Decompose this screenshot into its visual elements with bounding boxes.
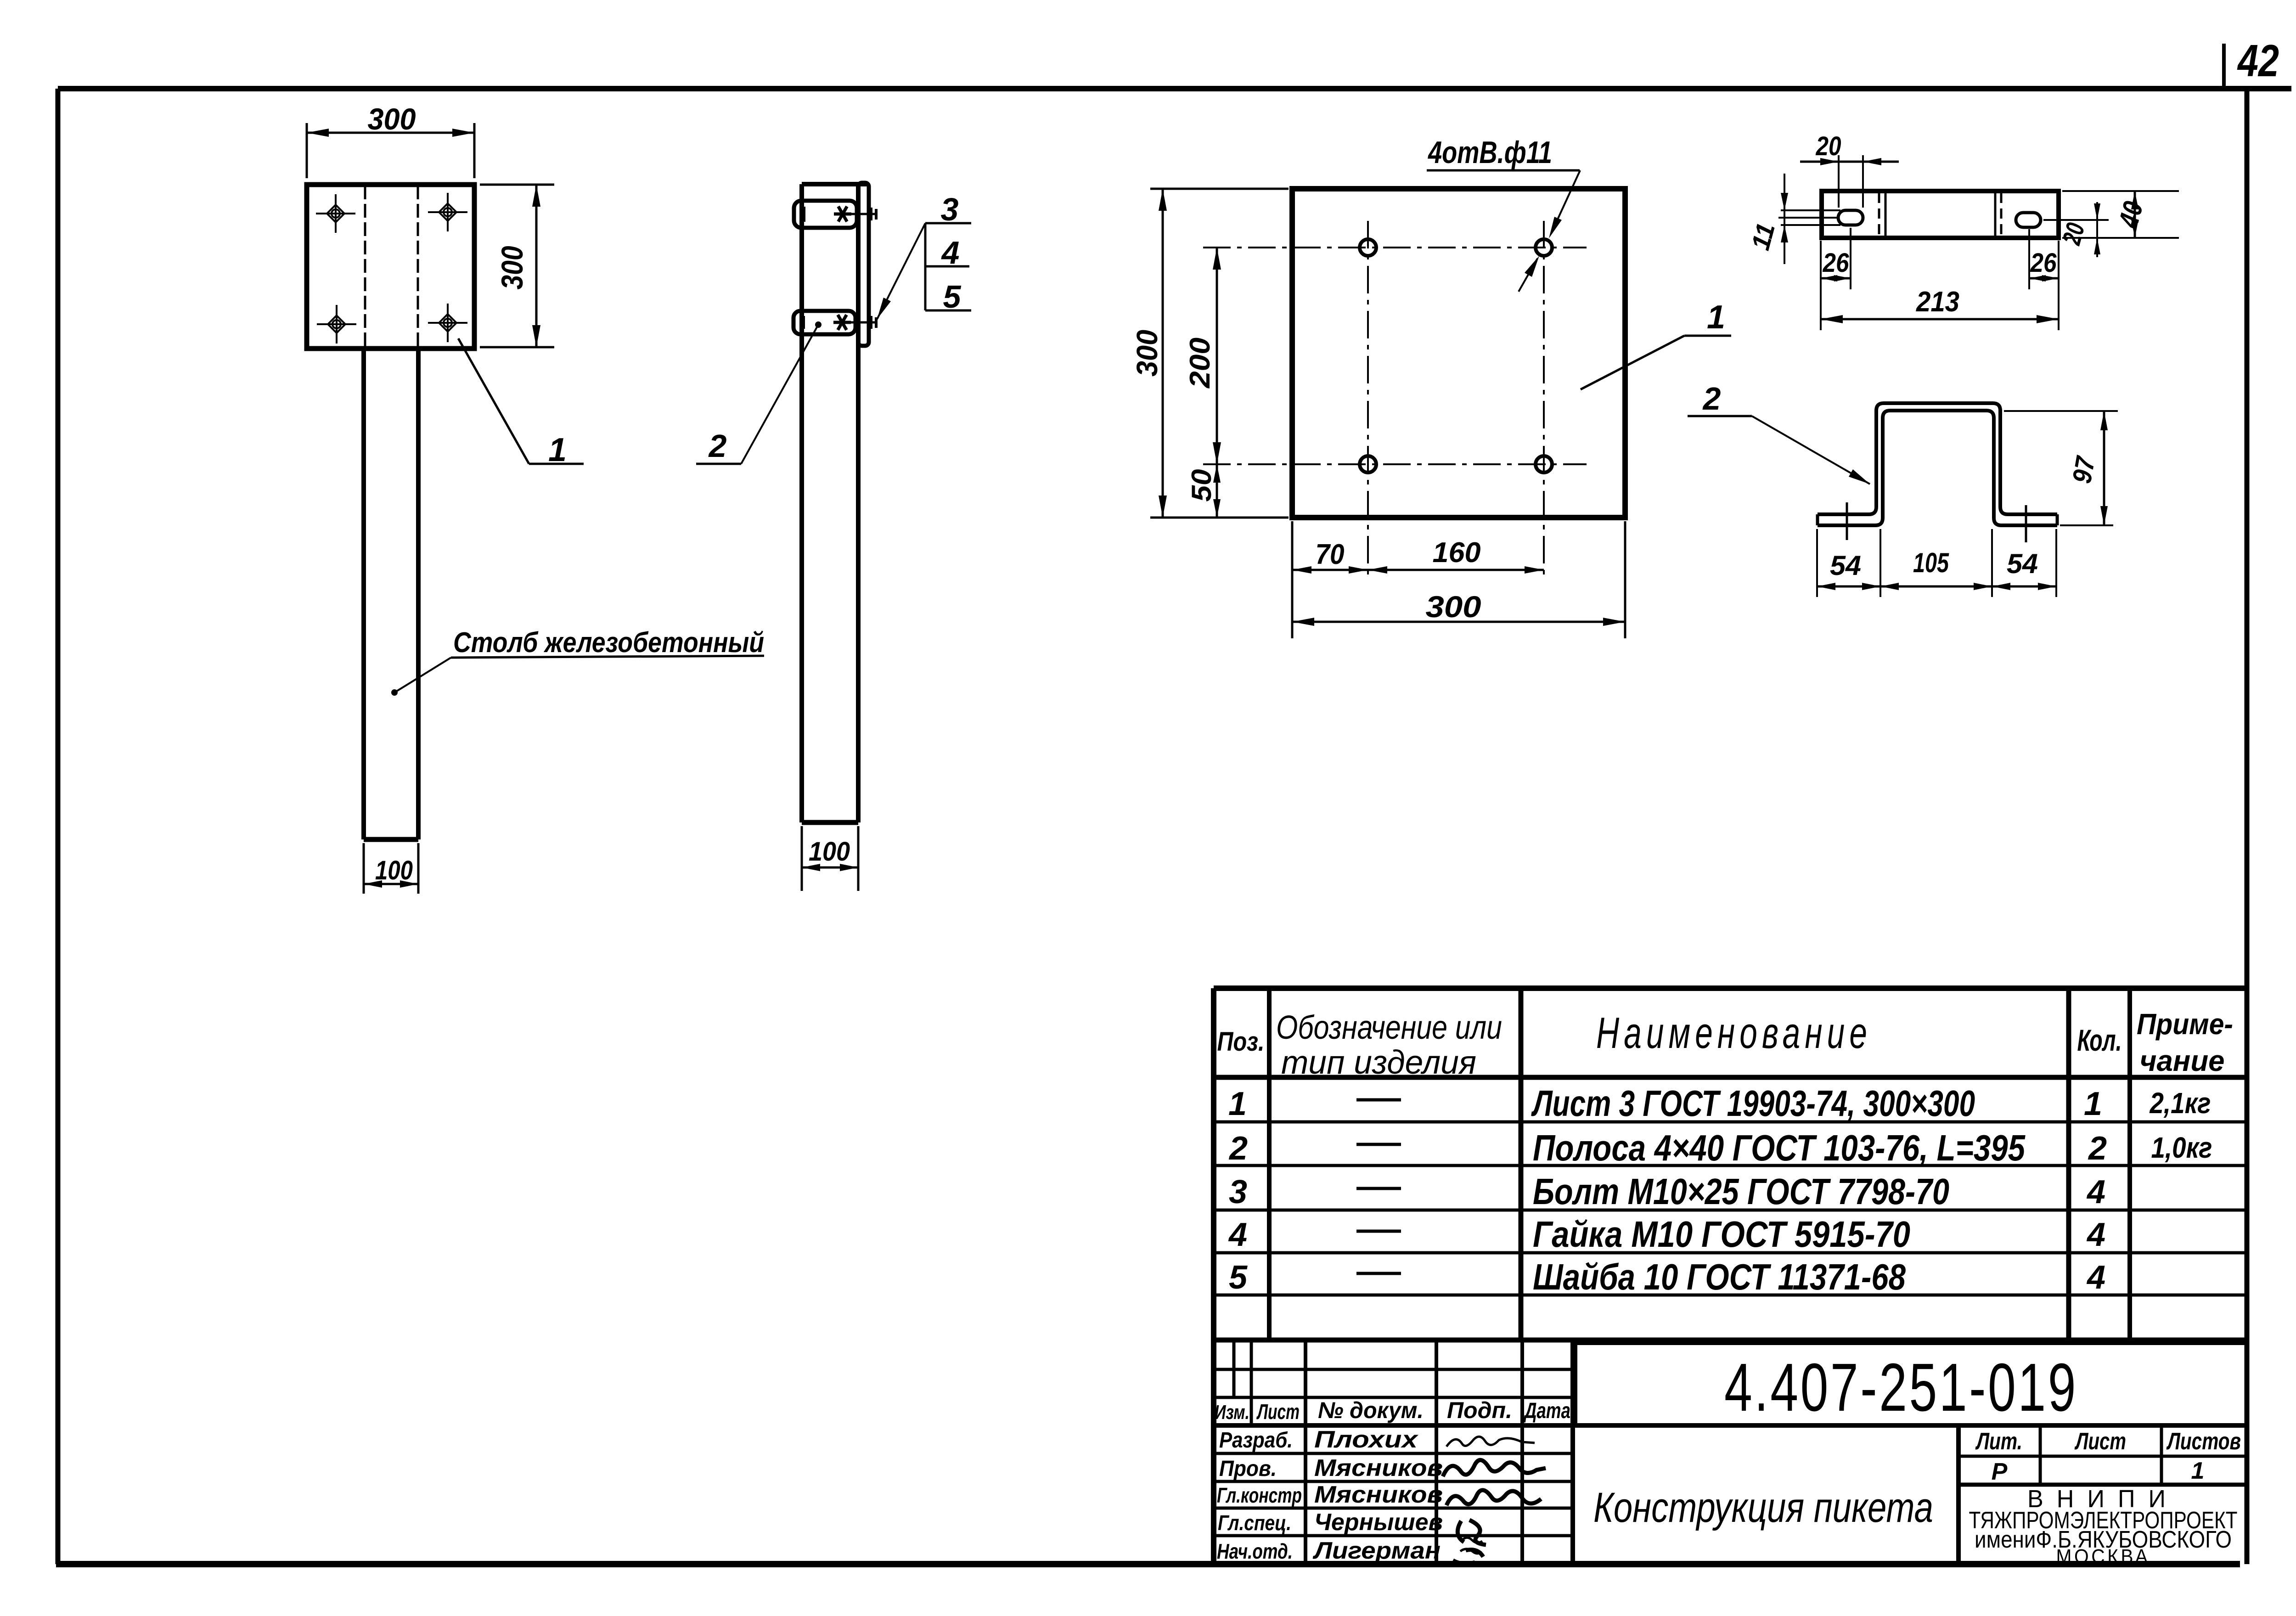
bracket view: dimension 54 right bbox=[2055, 529, 2057, 597]
plan view: dimension 160 bbox=[1368, 569, 1544, 571]
bracket view: left hole centre mark bbox=[1846, 502, 1848, 540]
svg-text:54: 54 bbox=[1830, 550, 1861, 581]
svg-text:300: 300 bbox=[1131, 330, 1164, 377]
svg-text:4: 4 bbox=[1228, 1216, 1247, 1253]
bracket view: dimension 105 bbox=[1991, 529, 1993, 597]
front view: bolt hole top-right bbox=[444, 208, 452, 216]
svg-text:Болт М10×25 ГОСТ 7798-70: Болт М10×25 ГОСТ 7798-70 bbox=[1533, 1171, 1949, 1212]
front view: bottom width dimension 100 bbox=[363, 843, 365, 894]
svg-text:Гл.спец.: Гл.спец. bbox=[1218, 1511, 1291, 1535]
front view: width dimension 300 bbox=[306, 123, 308, 178]
svg-text:4: 4 bbox=[2086, 1259, 2105, 1296]
side view: lower strap (item 2) bbox=[793, 311, 855, 334]
plan view: vertical centerline left hole column bbox=[1367, 221, 1369, 580]
svg-text:Наименование: Наименование bbox=[1596, 1008, 1872, 1058]
svg-text:1: 1 bbox=[1707, 299, 1725, 336]
svg-text:Подп.: Подп. bbox=[1447, 1397, 1512, 1423]
svg-text:Лист: Лист bbox=[2074, 1428, 2126, 1455]
svg-text:Чернышев: Чернышев bbox=[1314, 1509, 1443, 1536]
svg-text:1: 1 bbox=[2084, 1086, 2102, 1122]
strap flat view: right slot offset dimension 26 bbox=[2058, 241, 2060, 330]
bracket view: bent strap outer profile bbox=[1818, 403, 2057, 514]
strap flat view: bend lines bbox=[1878, 193, 1880, 236]
svg-text:5: 5 bbox=[1229, 1259, 1248, 1296]
strap flat view: width dimension 40 bbox=[2062, 190, 2179, 192]
plan view: dimension 70 bbox=[1292, 569, 1368, 571]
svg-text:1,0кг: 1,0кг bbox=[2151, 1131, 2212, 1164]
svg-text:Гл.констр: Гл.констр bbox=[1217, 1483, 1302, 1507]
title block: revision rows bbox=[1214, 1368, 1573, 1371]
svg-text:2,1кг: 2,1кг bbox=[2150, 1087, 2211, 1120]
title block: left column dividers bbox=[1250, 1340, 1253, 1425]
svg-text:Листов: Листов bbox=[2166, 1428, 2241, 1455]
svg-text:42: 42 bbox=[2237, 35, 2279, 86]
svg-text:2: 2 bbox=[1702, 381, 1721, 417]
svg-text:300: 300 bbox=[495, 246, 529, 289]
svg-text:300: 300 bbox=[368, 102, 416, 136]
strap flat view: outline bbox=[1822, 191, 2059, 238]
strap flat view: left slot bbox=[1838, 210, 1863, 225]
svg-text:Лист 3 ГОСТ 19903-74, 300×300: Лист 3 ГОСТ 19903-74, 300×300 bbox=[1531, 1083, 1975, 1124]
front view: bolt hole bottom-right bbox=[444, 319, 452, 327]
svg-text:Р: Р bbox=[1992, 1458, 2008, 1485]
side view: post shaft bbox=[799, 184, 804, 822]
svg-text:2: 2 bbox=[708, 428, 727, 464]
front view: bolt hole top-left bbox=[332, 209, 340, 218]
svg-text:Гайка М10 ГОСТ 5915-70: Гайка М10 ГОСТ 5915-70 bbox=[1533, 1214, 1910, 1255]
svg-text:70: 70 bbox=[1316, 539, 1345, 570]
svg-text:54: 54 bbox=[2007, 548, 2038, 579]
plan view: leader to item 1 bbox=[1581, 336, 1684, 389]
svg-text:3: 3 bbox=[1229, 1174, 1247, 1211]
svg-text:200: 200 bbox=[1184, 338, 1216, 389]
svg-text:Изм.: Изм. bbox=[1215, 1401, 1249, 1424]
svg-text:26: 26 bbox=[2030, 248, 2057, 278]
svg-text:Обозначение или: Обозначение или bbox=[1276, 1009, 1502, 1046]
plan view: hole leader with arrows bbox=[1551, 170, 1580, 233]
bracket view: height dimension 97 bbox=[2004, 410, 2118, 412]
plan view: hole top-right bbox=[1536, 239, 1552, 256]
svg-text:300: 300 bbox=[1426, 590, 1481, 624]
side view: leader from stack to bolt bbox=[877, 223, 925, 319]
bracket view: right hole centre mark bbox=[2025, 505, 2027, 542]
svg-text:2: 2 bbox=[2088, 1130, 2107, 1167]
plan view: hole bottom-left bbox=[1360, 456, 1376, 473]
title block: drawing title cell divider bbox=[1956, 1425, 1961, 1564]
svg-text:Кол.: Кол. bbox=[2077, 1023, 2122, 1057]
svg-text:100: 100 bbox=[809, 837, 850, 867]
svg-text:20: 20 bbox=[1816, 131, 1841, 161]
front view: bolt hole bottom-left bbox=[332, 320, 341, 328]
strap flat view: left slot offset dimension 26 bbox=[1820, 241, 1822, 330]
svg-text:3: 3 bbox=[941, 191, 959, 227]
svg-text:чание: чание bbox=[2140, 1044, 2225, 1077]
front view: base plate (item 1) bbox=[307, 185, 474, 349]
svg-text:Шайба 10 ГОСТ 11371-68: Шайба 10 ГОСТ 11371-68 bbox=[1533, 1256, 1906, 1297]
strap flat view: slot width dimension 11 bbox=[1781, 209, 1840, 211]
side view: base plate seen edge-on bbox=[858, 183, 869, 346]
plan view: horizontal centerline lower hole row bbox=[1203, 463, 1587, 465]
svg-text:Мясников: Мясников bbox=[1314, 1455, 1443, 1481]
strap flat view: overall dimension 213 bbox=[1821, 318, 2059, 321]
svg-text:Полоса 4×40 ГОСТ 103-76, L=395: Полоса 4×40 ГОСТ 103-76, L=395 bbox=[1533, 1127, 2026, 1168]
svg-text:МОСКВА: МОСКВА bbox=[2056, 1545, 2150, 1568]
svg-text:4: 4 bbox=[2086, 1216, 2105, 1253]
bracket view: leader from item 2 bbox=[1752, 416, 1870, 484]
svg-text:4отВ.ф11: 4отВ.ф11 bbox=[1427, 135, 1552, 170]
side view: upper bolt (items 3,4,5) bbox=[834, 213, 851, 216]
front view: leader to item 1 bbox=[458, 338, 529, 464]
svg-text:№ докум.: № докум. bbox=[1318, 1397, 1424, 1423]
strap flat view: right slot bbox=[2016, 213, 2041, 227]
svg-text:1: 1 bbox=[548, 432, 567, 468]
strap flat view: slot length dimension 20 bbox=[1838, 155, 1840, 208]
svg-text:50: 50 bbox=[1186, 469, 1217, 502]
front view: hidden post edges (dashed) bbox=[364, 186, 366, 348]
side view: bottom width dimension 100 bbox=[801, 826, 803, 891]
title block: signatures bbox=[1446, 1436, 1535, 1447]
plan view: vertical centerline right hole column bbox=[1543, 221, 1545, 580]
svg-text:26: 26 bbox=[1823, 248, 1850, 278]
title block: document code cell bbox=[1573, 1343, 1577, 1425]
svg-text:2: 2 bbox=[1228, 1130, 1248, 1167]
svg-text:1: 1 bbox=[1228, 1086, 1247, 1122]
strap flat view: slot centre dimension 20 bbox=[2043, 219, 2109, 221]
side view: upper strap (item 2) bbox=[794, 201, 857, 228]
svg-text:Пров.: Пров. bbox=[1219, 1457, 1277, 1481]
title block: extra divider in blank revision rows bbox=[1232, 1340, 1236, 1397]
sheet frame right border bbox=[2245, 89, 2250, 1564]
plan view: left overall dimension 300 bbox=[1150, 188, 1289, 190]
side view: lower bolt (items 3,4,5) bbox=[833, 321, 851, 324]
svg-text:Мясников: Мясников bbox=[1314, 1481, 1443, 1508]
bracket view: dimension 54 left bbox=[1816, 529, 1818, 597]
plan view: edge distance dimension 50 bbox=[1216, 464, 1218, 518]
plan view: bottom-left corner extension bbox=[1291, 521, 1294, 638]
front view: height dimension 300 bbox=[480, 184, 554, 186]
svg-text:Лит.: Лит. bbox=[1975, 1428, 2022, 1455]
svg-text:тип изделия: тип изделия bbox=[1281, 1044, 1476, 1081]
parts table: outer and grid lines bbox=[1214, 985, 2247, 991]
svg-text:4.407-251-019: 4.407-251-019 bbox=[1724, 1350, 2078, 1425]
plan view: hole bottom-right bbox=[1536, 456, 1552, 473]
sheet frame left border bbox=[56, 89, 61, 1564]
side view: callout stack 3 4 5 bbox=[924, 223, 927, 310]
title block: Лит Лист Листов sub-table bbox=[1958, 1455, 2247, 1458]
svg-text:Приме-: Приме- bbox=[2137, 1008, 2233, 1041]
front view: concrete post shaft bbox=[361, 349, 366, 839]
plan view: hole top-left bbox=[1360, 239, 1376, 256]
sheet frame top border bbox=[58, 86, 2291, 91]
svg-text:160: 160 bbox=[1433, 537, 1481, 569]
svg-text:4: 4 bbox=[2086, 1174, 2105, 1211]
page number tick bbox=[2222, 44, 2226, 89]
svg-text:Плохих: Плохих bbox=[1314, 1426, 1418, 1453]
svg-text:105: 105 bbox=[1913, 547, 1949, 578]
plan view: horizontal centerline upper hole row bbox=[1203, 247, 1587, 248]
svg-text:Лист: Лист bbox=[1256, 1400, 1300, 1424]
svg-text:Дата: Дата bbox=[1523, 1399, 1570, 1423]
side view: leader from 2 to strap bbox=[741, 325, 818, 464]
svg-text:5: 5 bbox=[943, 279, 962, 315]
svg-text:Конструкция пикета: Конструкция пикета bbox=[1593, 1484, 1933, 1531]
sheet frame bottom border bbox=[56, 1561, 2240, 1567]
front view: post label leader bbox=[394, 658, 451, 693]
svg-text:1: 1 bbox=[2191, 1458, 2205, 1484]
svg-text:Столб железобетонный: Столб железобетонный bbox=[453, 627, 764, 659]
svg-text:Нач.отд.: Нач.отд. bbox=[1217, 1539, 1293, 1563]
plan view: base plate outline bbox=[1292, 189, 1625, 518]
svg-text:213: 213 bbox=[1916, 286, 1959, 318]
plan view: bottom overall dimension 300 bbox=[1624, 521, 1626, 638]
svg-text:4: 4 bbox=[941, 235, 960, 270]
svg-text:100: 100 bbox=[375, 856, 413, 885]
svg-text:Лигерман: Лигерман bbox=[1312, 1537, 1441, 1564]
svg-text:Поз.: Поз. bbox=[1217, 1027, 1265, 1057]
plan view: hole spacing dimension 200 bbox=[1216, 248, 1218, 464]
bracket view: strap end caps bbox=[1816, 514, 1819, 525]
svg-text:Разраб.: Разраб. bbox=[1219, 1428, 1293, 1453]
bracket view: bent strap inner profile bbox=[1818, 411, 2057, 525]
title block: stamp outline bbox=[1214, 1338, 2247, 1343]
